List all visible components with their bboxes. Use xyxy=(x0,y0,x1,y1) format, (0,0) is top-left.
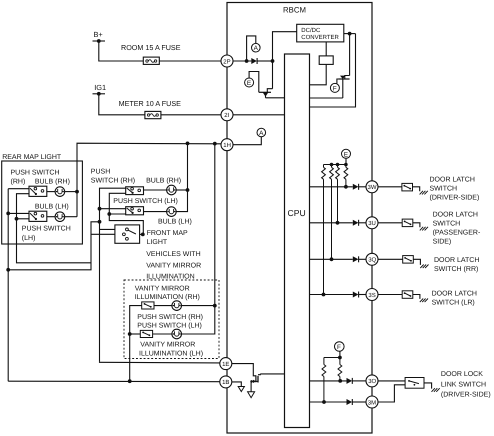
pin 3S xyxy=(366,289,378,301)
switch vanity LH xyxy=(140,330,152,337)
push switch RH rear xyxy=(29,186,47,196)
wire 2P to diode junction xyxy=(233,60,251,62)
bulb RH front xyxy=(167,185,177,195)
wire vL1 to 1B xyxy=(8,380,220,383)
svg-text:PUSH: PUSH xyxy=(91,169,110,176)
wire crosslink v1 to v0 xyxy=(8,222,99,270)
junction dot v1/LH switch xyxy=(98,207,102,211)
wire 1E to Q3 gate xyxy=(232,364,256,376)
svg-text:(LH): (LH) xyxy=(22,234,36,242)
transistor Q1 xyxy=(259,61,273,98)
wire CPU to 3Q with diode D4 xyxy=(310,256,367,262)
module RBCM box xyxy=(227,3,372,434)
diode D1 xyxy=(251,58,257,64)
wire resistor bus xyxy=(324,164,347,166)
svg-text:PUSH SWITCH (LH): PUSH SWITCH (LH) xyxy=(113,197,178,205)
wire 3S to switch xyxy=(378,294,402,296)
switch vanity RH xyxy=(142,302,154,309)
junction dots on resistor bus xyxy=(330,163,334,167)
bulb LH front xyxy=(167,207,177,217)
node IG1 tap bar xyxy=(93,93,106,95)
svg-text:SWITCH (LR): SWITCH (LR) xyxy=(432,299,475,307)
bulb vanity RH xyxy=(172,301,182,311)
connector circle E1 xyxy=(245,78,254,87)
svg-text:PUSH SWITCH: PUSH SWITCH xyxy=(11,169,60,176)
svg-text:(RH): (RH) xyxy=(11,177,26,185)
svg-text:ILLUMINATION (LH): ILLUMINATION (LH) xyxy=(139,349,203,357)
svg-text:3W: 3W xyxy=(368,184,377,191)
wire v2 to LH switch lower xyxy=(109,213,125,215)
svg-text:CONVERTER: CONVERTER xyxy=(301,34,339,41)
wire bulb RH to rail vR xyxy=(65,191,77,193)
resistor R2 xyxy=(322,165,326,295)
connector circle A1 xyxy=(252,43,261,52)
wire vL2 to LH switch lower xyxy=(17,218,30,220)
resistor R6 xyxy=(322,358,326,403)
svg-text:SWITCH: SWITCH xyxy=(433,220,461,227)
push switch LH rear xyxy=(29,211,47,221)
svg-text:3Q: 3Q xyxy=(368,257,376,264)
wire 1H to connector A2 xyxy=(233,137,261,145)
svg-text:(DRIVER-SIDE): (DRIVER-SIDE) xyxy=(430,194,480,202)
switch SW2 door latch passenger-side xyxy=(402,219,413,227)
pin 3M xyxy=(366,396,378,408)
svg-text:PUSH SWITCH (LH): PUSH SWITCH (LH) xyxy=(137,321,202,329)
svg-text:F: F xyxy=(337,344,341,351)
ground G1 open triangle xyxy=(248,392,255,398)
svg-text:1B: 1B xyxy=(222,379,229,386)
svg-text:3U: 3U xyxy=(368,220,376,227)
svg-text:A: A xyxy=(254,45,259,52)
svg-text:VEHICLES WITH: VEHICLES WITH xyxy=(146,251,200,258)
wire F1 to Q2 base xyxy=(337,79,339,84)
ground G5 xyxy=(420,265,428,269)
pin 1H xyxy=(221,139,233,151)
pin 1E xyxy=(220,358,232,370)
junction dot vanity rail/1B wire xyxy=(128,379,132,383)
module CPU box xyxy=(285,54,310,428)
wire switch to ground xyxy=(413,187,420,191)
fuse METER 10A xyxy=(145,111,161,118)
junction dot vanity rail/bulb RH xyxy=(213,304,217,308)
svg-text:DOOR LATCH: DOOR LATCH xyxy=(433,211,478,218)
svg-text:3M: 3M xyxy=(368,399,376,406)
wire CPU to 3S with diode D5 xyxy=(310,292,367,298)
svg-text:B+: B+ xyxy=(94,30,103,39)
connector circle F2 xyxy=(335,342,345,352)
wire v1 to LH switch xyxy=(100,208,126,210)
svg-text:3S: 3S xyxy=(368,292,375,299)
bulb LH rear xyxy=(55,212,65,222)
wire 3O to link switch xyxy=(378,380,405,382)
junction dot bus/vanity rail xyxy=(213,142,217,146)
svg-text:E: E xyxy=(344,151,348,158)
junction dot vL1/crosslink xyxy=(6,268,10,272)
wire front rail down xyxy=(176,143,187,211)
wire RH switch to bulb xyxy=(47,191,55,193)
switch SW1 door latch driver-side xyxy=(402,183,413,191)
wire CPU to 3W with diode D2 xyxy=(310,184,367,190)
junction at IG1 xyxy=(97,92,101,96)
wire RH switch to bulb xyxy=(144,189,167,191)
wire main lamp bus to 1H xyxy=(77,143,221,217)
svg-text:PUSH SWITCH (RH): PUSH SWITCH (RH) xyxy=(137,313,203,321)
wire LH switch to bulb xyxy=(144,211,167,213)
wire front map light common xyxy=(140,233,143,235)
wire bulb RH to rail xyxy=(176,189,187,191)
wire v1 to front map light upper contact xyxy=(100,228,127,230)
pin 1B xyxy=(220,376,232,388)
ground G2 open triangle xyxy=(238,387,244,392)
svg-text:2I: 2I xyxy=(224,112,229,119)
wire CPU to 3M with diode D7 xyxy=(310,399,367,405)
wire 2I to CPU xyxy=(233,114,284,116)
ground G3 xyxy=(420,191,428,195)
wire vanity switch RH to bulb xyxy=(154,305,172,307)
pin 3U xyxy=(366,217,378,229)
wire junction up to DC/DC converter xyxy=(273,32,297,61)
pin 3Q xyxy=(366,253,378,265)
ground G6 xyxy=(420,299,428,303)
svg-text:DC/DC: DC/DC xyxy=(301,27,321,34)
wire diode to junction 2 xyxy=(257,60,273,62)
svg-text:IG1: IG1 xyxy=(94,83,106,92)
svg-text:ILLUMINATION: ILLUMINATION xyxy=(146,274,195,281)
wire rail vL2 to RH switch lower xyxy=(17,194,92,263)
svg-text:REAR MAP LIGHT: REAR MAP LIGHT xyxy=(2,154,62,161)
wire switch to ground xyxy=(413,259,420,265)
wire link switch to ground xyxy=(424,383,432,389)
wire vanity rail to switch LH xyxy=(130,333,141,335)
svg-text:DOOR LATCH: DOOR LATCH xyxy=(432,291,477,298)
wire Q1 emitter to CPU xyxy=(266,97,285,99)
resistor R5 xyxy=(344,165,348,187)
svg-text:E: E xyxy=(247,80,251,87)
wire bulb LH to rail vR xyxy=(65,216,77,218)
wire 3Q to switch xyxy=(378,258,403,260)
svg-text:LINK SWITCH: LINK SWITCH xyxy=(441,381,486,388)
svg-text:A: A xyxy=(259,130,264,137)
pin 2P xyxy=(221,55,233,67)
pin 3O xyxy=(366,375,378,387)
wire DC/DC output to CPU xyxy=(310,34,356,107)
wire Q3 drain to CPU xyxy=(260,373,284,375)
wire rail vL1 top to RH switch xyxy=(8,188,29,190)
wire v0 to front map light lower contact xyxy=(91,233,124,235)
resistor R4 xyxy=(336,165,340,223)
svg-text:SWITCH: SWITCH xyxy=(430,186,458,193)
svg-text:BULB (RH): BULB (RH) xyxy=(146,176,181,184)
svg-text:BULB (LH): BULB (LH) xyxy=(35,203,69,211)
switch SW4 door latch LR xyxy=(402,291,413,299)
ground G4 xyxy=(420,227,428,231)
junction dot vanity rail/LH row xyxy=(128,332,132,336)
wire DC/DC output xyxy=(344,33,356,35)
svg-text:ROOM 15 A FUSE: ROOM 15 A FUSE xyxy=(121,43,181,52)
junction at B+ xyxy=(97,39,101,43)
svg-text:F: F xyxy=(333,85,337,92)
wire switch to ground xyxy=(413,295,420,299)
junction dot under F2 xyxy=(338,356,342,360)
svg-text:CPU: CPU xyxy=(288,208,306,218)
wire 3U to switch xyxy=(378,222,402,224)
svg-text:1E: 1E xyxy=(222,361,229,368)
wire rail v2 xyxy=(109,193,143,234)
svg-text:DOOR LATCH: DOOR LATCH xyxy=(434,257,479,264)
wire vanity switch LH to bulb xyxy=(153,333,172,335)
connector circle A2 xyxy=(257,128,266,137)
wire 3W to switch xyxy=(378,186,402,188)
svg-text:SIDE): SIDE) xyxy=(433,237,452,245)
bulb RH rear xyxy=(55,187,65,197)
wire vanity rail left xyxy=(130,306,142,382)
connector circle F1 xyxy=(330,83,339,92)
wire E2 to resistor bus xyxy=(345,158,347,164)
svg-text:BULB (RH): BULB (RH) xyxy=(35,177,70,185)
switch front map light xyxy=(115,225,140,243)
transistor Q3 MOSFET xyxy=(250,374,260,383)
wire CPU to 3O with diode D6 xyxy=(310,378,367,384)
pin 2I xyxy=(221,109,233,121)
junction dot node V1 xyxy=(271,59,275,63)
ground G7 xyxy=(432,388,440,392)
switch SW3 door latch RR xyxy=(403,256,414,264)
junction dot front rail/bulb RH xyxy=(186,188,190,192)
wire CPU to 3U with diode D3 xyxy=(310,220,367,226)
resistor R7 xyxy=(338,358,342,381)
junction dot on DC/DC output xyxy=(348,32,352,36)
wire 3M to link switch xyxy=(378,385,405,402)
resistor R1 under DC/DC xyxy=(310,42,334,85)
wire vanity right rail from top bus xyxy=(181,144,214,334)
svg-text:PUSH SWITCH: PUSH SWITCH xyxy=(22,225,71,232)
junction dot front map common xyxy=(141,233,145,237)
svg-text:(PASSENGER-: (PASSENGER- xyxy=(433,228,481,236)
junction dot node B+int xyxy=(245,59,249,63)
switch SW5 door lock link switch xyxy=(405,378,424,389)
fuse ROOM 15A xyxy=(143,57,159,64)
junction dot vR/bulb RH xyxy=(75,190,79,194)
svg-text:(DRIVER-SIDE): (DRIVER-SIDE) xyxy=(441,391,491,399)
wire fuse to pin 2I xyxy=(161,114,222,116)
svg-text:FRONT MAP: FRONT MAP xyxy=(147,230,188,237)
wire rail vL1 xyxy=(7,189,9,382)
wire branch to left resistor xyxy=(324,357,340,359)
svg-text:2P: 2P xyxy=(223,58,230,65)
push switch LH front xyxy=(126,207,144,215)
svg-text:DOOR LATCH: DOOR LATCH xyxy=(430,177,475,184)
bulb vanity LH xyxy=(172,329,182,339)
module vanity mirror dashed box xyxy=(124,280,219,359)
svg-text:3O: 3O xyxy=(368,378,376,385)
wire Q3 source to ground xyxy=(250,381,252,391)
svg-text:VANITY MIRROR: VANITY MIRROR xyxy=(146,262,201,269)
wire IG1 to fuse xyxy=(99,94,145,115)
svg-text:VANITY MIRROR: VANITY MIRROR xyxy=(135,285,190,292)
wire Q2 emitter to CPU xyxy=(310,97,343,99)
svg-text:LIGHT: LIGHT xyxy=(147,239,168,246)
node B+ tap bar xyxy=(93,40,106,42)
pin 3W xyxy=(366,181,378,193)
push switch RH front xyxy=(126,187,144,195)
wire switch to ground xyxy=(413,223,420,227)
wire E1 to Q1 base xyxy=(249,72,259,93)
svg-text:DOOR LOCK: DOOR LOCK xyxy=(441,371,483,378)
svg-text:1H: 1H xyxy=(223,142,231,149)
wire F2 down xyxy=(339,351,341,357)
junction dot vL1/LH switch xyxy=(6,212,10,216)
connector circle E2 xyxy=(342,149,351,158)
svg-text:RBCM: RBCM xyxy=(283,6,306,15)
svg-text:SWITCH (RR): SWITCH (RR) xyxy=(434,265,478,273)
wire hook to connector A1 xyxy=(247,36,256,61)
wire B+ to fuse xyxy=(99,41,144,61)
wire 1B to ground xyxy=(232,382,242,387)
wire vL1 to LH switch xyxy=(8,212,29,214)
module rear map light box xyxy=(2,161,83,244)
module DC/DC converter U2 xyxy=(297,24,344,42)
svg-text:METER 10 A FUSE: METER 10 A FUSE xyxy=(119,99,182,108)
wire vanity bulb RH to rail xyxy=(181,305,214,307)
wire v1 to 1E xyxy=(100,362,221,363)
transistor Q2 xyxy=(339,34,350,98)
wire rail v1 xyxy=(100,188,126,362)
svg-text:VANITY MIRROR: VANITY MIRROR xyxy=(140,342,195,349)
svg-text:ILLUMINATION (RH): ILLUMINATION (RH) xyxy=(135,293,200,301)
wire fuse to pin 2P xyxy=(159,60,221,62)
wire LH switch to bulb xyxy=(47,216,55,218)
junction dot v1/crosslink xyxy=(98,220,102,224)
svg-text:SWITCH (RH): SWITCH (RH) xyxy=(91,177,135,185)
junction dot vL2/LH switch lower xyxy=(15,217,19,221)
junction dot v2/LH switch lower xyxy=(107,212,111,216)
resistor R3 xyxy=(330,165,334,260)
junction dot bus/front-map rail xyxy=(186,142,190,146)
svg-text:BULB (LH): BULB (LH) xyxy=(158,218,192,226)
